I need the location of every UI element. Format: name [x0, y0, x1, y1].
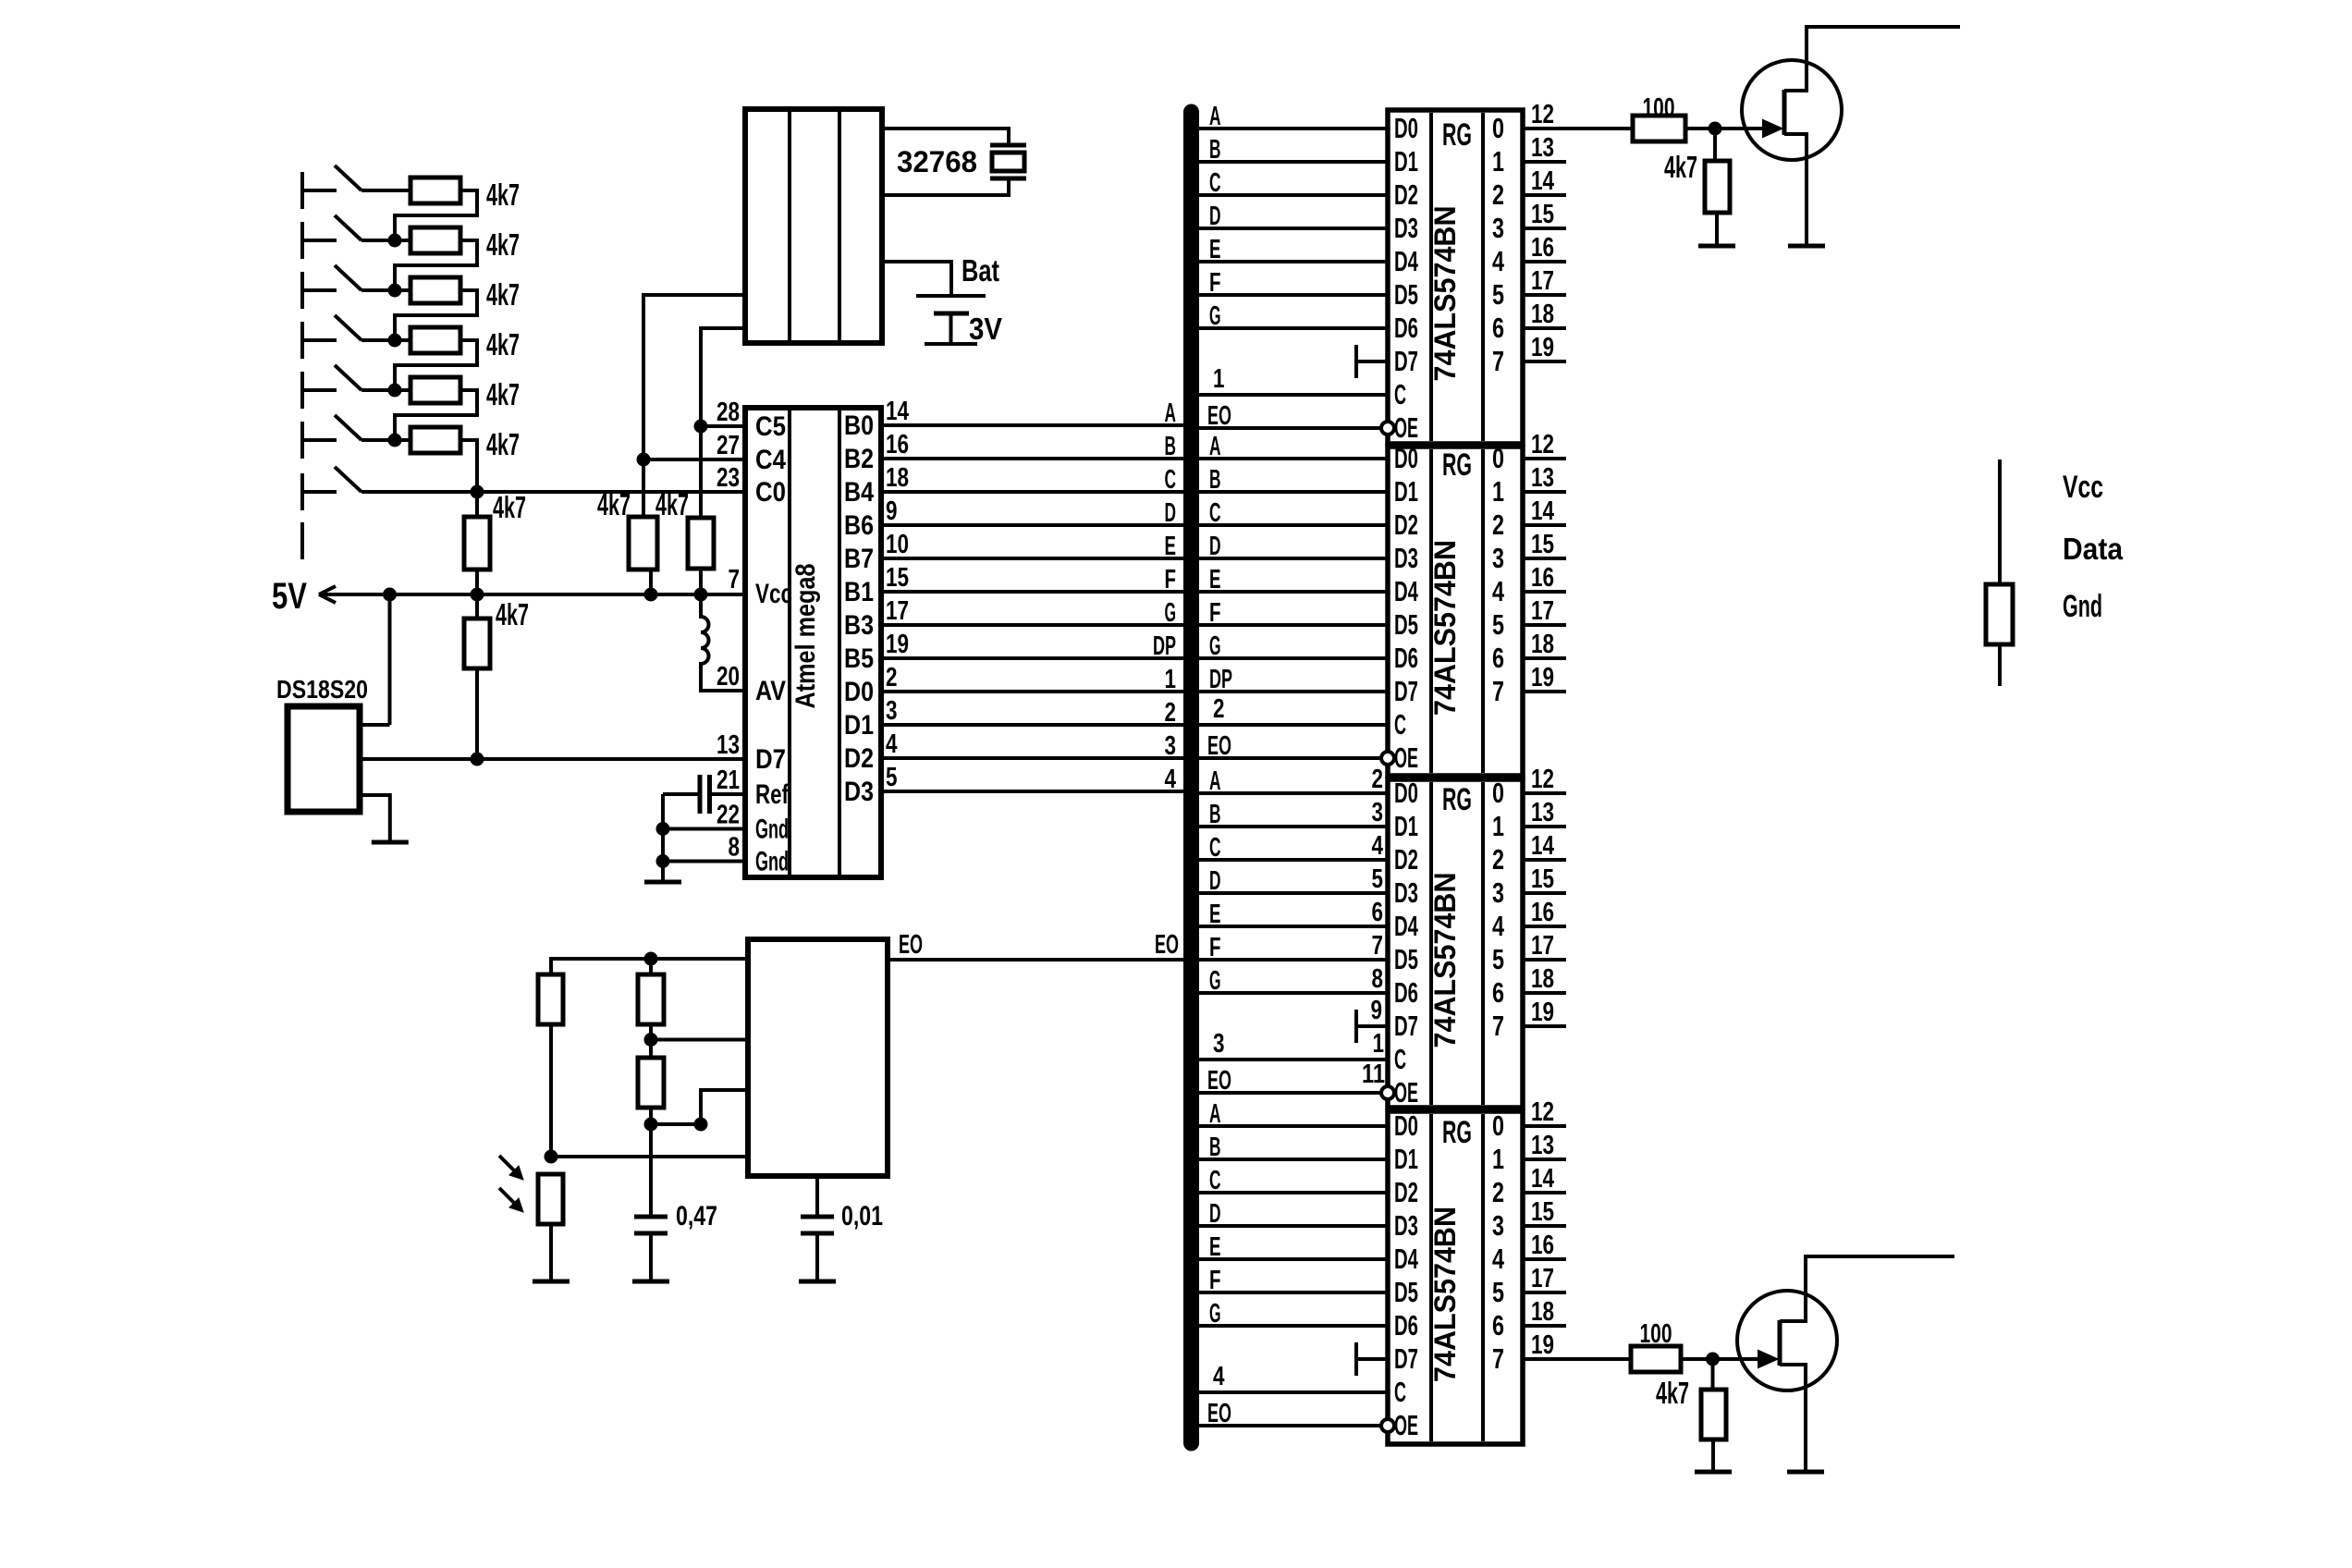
svg-text:2: 2: [886, 663, 898, 692]
wire bus net E to DD3 D4: [1197, 925, 1388, 928]
svg-text:D: D: [1209, 866, 1221, 896]
switch S1 lever: [335, 165, 361, 190]
svg-text:2: 2: [1492, 178, 1504, 211]
svg-text:7: 7: [1372, 931, 1384, 961]
wire DS18S20 data pin to mega8 D7 pin 13: [360, 757, 745, 761]
svg-text:G: G: [1165, 598, 1177, 628]
ground DS18S20: [372, 840, 409, 845]
switch S3 lever: [335, 265, 361, 290]
DD3 internal divider left: [1429, 782, 1433, 1105]
svg-text:D5: D5: [1394, 278, 1418, 311]
svg-text:5: 5: [1492, 1276, 1504, 1308]
IC DD1 74ALS574BN body: [1388, 110, 1523, 444]
svg-text:4: 4: [1213, 1362, 1225, 1391]
svg-text:18: 18: [886, 463, 909, 493]
wire U1 D0 pin 2 to bus net 1: [881, 690, 1185, 693]
switch S5 lever: [335, 365, 361, 390]
svg-text:B: B: [1209, 800, 1221, 829]
wire switch S4 to resistor R4: [361, 338, 410, 342]
svg-text:4: 4: [886, 729, 898, 759]
wire R15 to gate node: [1685, 127, 1766, 130]
wire U1 B3 pin 17 to bus net G: [881, 623, 1185, 627]
wire R13 lower lead to cap node: [649, 1108, 653, 1217]
wire C2 to ground: [649, 1233, 653, 1281]
svg-text:EO: EO: [1207, 731, 1231, 761]
node C4 line / pull-up A: [637, 453, 651, 467]
svg-text:C5: C5: [755, 411, 786, 442]
switch S4 contact stub: [302, 338, 337, 342]
svg-text:4k7: 4k7: [486, 427, 520, 461]
wire chain R5 to R6: [395, 390, 477, 440]
terminal bar continuation segment: [300, 522, 304, 559]
switch S4 terminal bar: [300, 322, 304, 359]
wire DD3 output 4 pin 16: [1523, 925, 1566, 928]
svg-text:3: 3: [1165, 731, 1177, 761]
svg-text:17: 17: [1531, 931, 1554, 961]
svg-text:4k7: 4k7: [486, 277, 520, 312]
svg-text:D1: D1: [1394, 475, 1418, 508]
svg-text:3V: 3V: [969, 312, 1002, 346]
wire gate node to R16: [1713, 129, 1717, 161]
wire U1 D3 pin 5 to bus net 4: [881, 790, 1185, 793]
node gnd column / pin 8: [656, 854, 670, 868]
DD4 D7 tie-off stub: [1354, 1342, 1358, 1376]
wire Gnd pin 22: [663, 827, 745, 831]
svg-text:14: 14: [1531, 166, 1554, 196]
transistor VT2 gate electrode: [1778, 1320, 1782, 1366]
wire block EO output to bus: [888, 958, 1185, 962]
transistor VT1 source lead: [1784, 134, 1807, 244]
svg-text:G: G: [1209, 1299, 1221, 1329]
svg-text:D0: D0: [1394, 1109, 1418, 1142]
svg-text:18: 18: [1531, 630, 1554, 659]
wire LDR node to block pin: [551, 1155, 748, 1158]
node switch S3 / chain junction: [388, 284, 402, 298]
svg-text:6: 6: [1492, 312, 1504, 344]
svg-text:7: 7: [1492, 1010, 1504, 1042]
svg-text:D4: D4: [1394, 910, 1418, 942]
resistor R11 (LDR divider upper): [538, 974, 563, 1024]
transistor VT1 body: [1742, 60, 1842, 160]
switch S1 terminal bar: [300, 172, 304, 209]
svg-text:3: 3: [886, 696, 898, 726]
svg-text:8: 8: [729, 833, 741, 863]
svg-text:D0: D0: [1394, 112, 1418, 144]
photoresistor arrows: [499, 1156, 518, 1207]
svg-text:E: E: [1209, 235, 1221, 264]
wire bus net D to DD2 D3: [1197, 557, 1388, 560]
DD2 OE active-low bubble: [1381, 752, 1394, 765]
svg-text:D6: D6: [1394, 642, 1418, 674]
svg-text:7: 7: [1492, 1342, 1504, 1375]
battery BT1 positive plate: [916, 294, 986, 298]
svg-text:E: E: [1209, 565, 1221, 594]
wire switch S5 to resistor R5: [361, 388, 410, 392]
wire DD2 output 1 pin 13: [1523, 490, 1566, 494]
arrow 5V feed: [319, 586, 336, 603]
switch S7 contact stub: [302, 490, 337, 494]
svg-text:D7: D7: [1394, 1010, 1418, 1042]
wire pull-up A lower lead: [649, 570, 653, 594]
wire DD1 output 6 pin 18: [1523, 326, 1566, 330]
wire DD4 output 6 pin 18: [1523, 1324, 1566, 1328]
svg-text:15: 15: [1531, 530, 1554, 559]
svg-text:14: 14: [1531, 1164, 1554, 1194]
switch S3 terminal bar: [300, 272, 304, 309]
svg-text:EO: EO: [1207, 401, 1231, 431]
svg-text:D2: D2: [844, 743, 874, 774]
svg-text:1: 1: [1213, 364, 1225, 394]
svg-text:D0: D0: [1394, 442, 1418, 474]
svg-text:27: 27: [717, 431, 740, 460]
svg-text:D0: D0: [1394, 777, 1418, 809]
svg-text:E: E: [1209, 1232, 1221, 1262]
wire bus net G to DD4 D6: [1197, 1324, 1388, 1328]
resistor R6 4k7: [410, 427, 460, 453]
svg-text:1: 1: [1373, 1029, 1385, 1059]
svg-text:13: 13: [717, 730, 740, 760]
wire DD4 output 7 to gate resistor: [1566, 1357, 1631, 1361]
svg-text:15: 15: [1531, 1197, 1554, 1227]
DD3 D7 tie-off stub: [1354, 1010, 1358, 1043]
svg-text:4k7: 4k7: [597, 487, 631, 521]
transistor VT1 gate electrode: [1782, 90, 1787, 135]
crystal X1 bottom plate: [990, 177, 1026, 181]
resistor R13 (divider): [638, 1058, 664, 1108]
wire bus net D to DD3 D3: [1197, 891, 1388, 895]
svg-text:3: 3: [1213, 1029, 1225, 1059]
svg-text:4k7: 4k7: [486, 227, 520, 262]
svg-text:4k7: 4k7: [486, 327, 520, 361]
ground R16: [1698, 244, 1735, 249]
svg-text:20: 20: [717, 662, 740, 692]
svg-text:F: F: [1209, 268, 1221, 298]
svg-text:4: 4: [1492, 910, 1505, 942]
wire U1 D1 pin 3 to bus net 2: [881, 723, 1185, 727]
wire DD3 output 0 pin 12: [1523, 791, 1566, 795]
svg-text:RG: RG: [1442, 782, 1472, 817]
wire 5V rail to DS18S20 data pull-up: [475, 594, 479, 619]
wire switch S1 to resistor R1: [361, 189, 410, 192]
svg-text:2: 2: [1492, 1176, 1504, 1208]
switch S6 terminal bar: [300, 422, 304, 459]
svg-text:B4: B4: [844, 477, 874, 508]
switch S3 contact stub: [302, 288, 337, 292]
svg-text:4k7: 4k7: [1656, 1376, 1689, 1410]
wire chain R4 to R5: [395, 340, 477, 390]
svg-text:74ALS574BN: 74ALS574BN: [1428, 206, 1462, 382]
svg-text:D7: D7: [1394, 345, 1418, 377]
ground battery: [925, 342, 977, 346]
wire DS18S20 Vdd pin: [360, 723, 390, 727]
wire C3 to ground: [815, 1233, 819, 1281]
node gate VT1: [1709, 122, 1722, 136]
svg-text:16: 16: [886, 430, 909, 459]
wire RTC to crystal top: [882, 129, 1009, 145]
ground VT2 source: [1787, 1470, 1824, 1475]
IC DD3 74ALS574BN body: [1388, 779, 1523, 1108]
resistor R1 4k7: [410, 178, 460, 203]
svg-text:4: 4: [1492, 575, 1505, 607]
node R12/R13 to block pin: [644, 1033, 658, 1047]
svg-text:D3: D3: [844, 777, 874, 807]
wire block top pin to divider resistors: [551, 959, 748, 974]
svg-text:Gnd: Gnd: [755, 847, 789, 877]
svg-text:32768: 32768: [897, 145, 977, 178]
wire pull-up B upper lead: [699, 426, 703, 518]
battery BT1 stem: [949, 313, 953, 342]
svg-text:D5: D5: [1394, 608, 1418, 641]
svg-text:Vcc: Vcc: [755, 579, 792, 609]
switch S5 contact stub: [302, 388, 337, 392]
wire chain R3 to R4: [395, 290, 477, 340]
svg-text:D1: D1: [1394, 145, 1418, 178]
IC DS18S20 temperature sensor body: [288, 706, 360, 812]
svg-text:12: 12: [1531, 1097, 1554, 1127]
svg-text:0: 0: [1492, 1109, 1504, 1142]
svg-text:OE: OE: [1394, 1076, 1418, 1109]
svg-text:4: 4: [1492, 245, 1505, 277]
svg-text:C: C: [1209, 168, 1221, 198]
svg-text:D: D: [1165, 498, 1177, 528]
switch S6 contact stub: [302, 438, 337, 442]
svg-text:0: 0: [1492, 442, 1504, 474]
node switch S5 / chain junction: [388, 384, 402, 398]
svg-text:C: C: [1209, 1166, 1221, 1195]
wire DD1 output 1 pin 13: [1523, 160, 1566, 164]
wire DD4 output 2 pin 14: [1523, 1191, 1566, 1194]
svg-text:A: A: [1209, 766, 1221, 796]
IC DD2 74ALS574BN body: [1388, 447, 1523, 776]
svg-text:74ALS574BN: 74ALS574BN: [1428, 1207, 1462, 1382]
svg-text:A: A: [1209, 102, 1221, 131]
svg-text:C4: C4: [755, 445, 786, 475]
svg-text:B1: B1: [844, 577, 874, 607]
svg-text:Ref: Ref: [755, 779, 790, 810]
svg-text:3: 3: [1492, 542, 1504, 574]
wire bus net A to DD3 D0: [1197, 791, 1388, 795]
wire bus net B to DD2 D1: [1197, 490, 1388, 494]
switch S7 terminal bar: [300, 473, 304, 510]
svg-text:D5: D5: [1394, 1276, 1418, 1308]
svg-text:23: 23: [717, 463, 740, 493]
svg-text:DS18S20: DS18S20: [276, 675, 368, 704]
svg-text:A: A: [1209, 432, 1221, 461]
resistor R3 4k7: [410, 277, 460, 303]
node LDR divider mid: [545, 1150, 558, 1164]
svg-text:G: G: [1209, 966, 1221, 996]
DD4 OE active-low bubble: [1381, 1419, 1394, 1432]
svg-text:4k7: 4k7: [496, 597, 529, 631]
IC RTC block body: [745, 109, 882, 343]
wire key node to pull-up resistor: [475, 492, 479, 517]
svg-text:19: 19: [886, 630, 909, 659]
svg-text:D3: D3: [1394, 212, 1418, 244]
svg-text:D2: D2: [1394, 508, 1418, 541]
svg-text:D1: D1: [1394, 1143, 1418, 1175]
svg-text:E: E: [1209, 900, 1221, 929]
svg-text:OE: OE: [1394, 1409, 1418, 1441]
U1 internal divider left: [788, 410, 791, 875]
svg-text:Gnd: Gnd: [2063, 589, 2102, 624]
switch S1 contact stub: [302, 189, 337, 192]
svg-text:D0: D0: [844, 677, 874, 707]
svg-text:14: 14: [886, 397, 909, 426]
node gnd column / pin 22: [656, 822, 670, 836]
svg-text:0: 0: [1492, 112, 1504, 144]
wire DD1 output 7 pin 19: [1523, 360, 1566, 363]
wire bus net G to DD3 D6: [1197, 991, 1388, 995]
svg-text:19: 19: [1531, 998, 1554, 1027]
wire chain R2 to R3: [395, 240, 477, 290]
DD2 internal divider left: [1429, 449, 1433, 773]
node switch S6 / chain junction: [388, 434, 402, 447]
wire R13 upper lead: [649, 1040, 653, 1059]
wire R11 to lower node: [549, 1024, 553, 1157]
wire DD3 output 2 pin 14: [1523, 858, 1566, 862]
svg-text:12: 12: [1531, 430, 1554, 459]
svg-text:D4: D4: [1394, 245, 1418, 277]
svg-text:14: 14: [1531, 831, 1554, 861]
wire DD4 output 4 pin 16: [1523, 1257, 1566, 1261]
svg-text:4: 4: [1165, 765, 1177, 794]
wire DD2 output 5 pin 17: [1523, 623, 1566, 627]
crystal X1 top plate: [990, 143, 1026, 148]
resistor R2 4k7: [410, 227, 460, 253]
svg-text:13: 13: [1531, 463, 1554, 493]
resistor R9 4k7 (RTC line A): [629, 517, 657, 570]
ground VT1 source: [1788, 244, 1825, 249]
wire DD1 output 2 pin 14: [1523, 193, 1566, 197]
DD3 internal divider right: [1481, 782, 1485, 1105]
wire switch S3 to resistor R3: [361, 288, 410, 292]
wire bus net 2 to DD2 C clock: [1197, 723, 1388, 727]
svg-text:3: 3: [1492, 876, 1504, 909]
svg-text:13: 13: [1531, 133, 1554, 163]
wire DD1 output 5 pin 17: [1523, 293, 1566, 297]
svg-text:C: C: [1165, 465, 1177, 495]
svg-text:13: 13: [1531, 798, 1554, 827]
svg-text:DP: DP: [1209, 665, 1232, 694]
DD1 internal divider right: [1481, 113, 1485, 441]
svg-text:2: 2: [1213, 694, 1225, 724]
svg-text:A: A: [1165, 398, 1177, 428]
resistor R8 4k7 pull-up (1-wire data): [464, 619, 490, 668]
ground C2: [632, 1280, 669, 1284]
svg-text:13: 13: [1531, 1131, 1554, 1160]
resistor R10 4k7 (RTC line B): [688, 518, 714, 569]
svg-text:B: B: [1165, 432, 1177, 461]
svg-text:B7: B7: [844, 544, 874, 574]
node switch S2 / chain junction: [388, 234, 402, 248]
svg-text:6: 6: [1372, 898, 1384, 927]
svg-text:17: 17: [1531, 596, 1554, 626]
svg-text:B2: B2: [844, 444, 874, 474]
wire U1 B4 pin 18 to bus net C: [881, 490, 1185, 494]
svg-text:D7: D7: [755, 744, 786, 775]
svg-text:4k7: 4k7: [486, 377, 520, 411]
wire R18 to ground: [1711, 1439, 1715, 1470]
svg-text:15: 15: [1531, 200, 1554, 229]
wire DD4 output 7 pin 19: [1523, 1357, 1566, 1361]
wire DD1 output 0 to gate resistor: [1566, 127, 1633, 130]
svg-text:F: F: [1209, 933, 1221, 962]
wire DD4 output 3 pin 15: [1523, 1224, 1566, 1228]
svg-text:B3: B3: [844, 610, 874, 641]
svg-text:B6: B6: [844, 510, 874, 541]
wire U1 B5 pin 19 to bus net DP: [881, 656, 1185, 660]
svg-text:EO: EO: [899, 930, 923, 960]
svg-text:EO: EO: [1155, 930, 1179, 960]
svg-text:74ALS574BN: 74ALS574BN: [1428, 873, 1462, 1048]
svg-text:0,47: 0,47: [676, 1201, 717, 1231]
svg-text:0: 0: [1492, 777, 1504, 809]
wire bus net B to DD1 D1: [1197, 160, 1388, 164]
svg-text:C: C: [1209, 498, 1221, 528]
wire bus net A to DD1 D0: [1197, 127, 1388, 130]
legend probe wire upper: [1998, 459, 2002, 584]
wire DD2 output 4 pin 16: [1523, 590, 1566, 594]
svg-text:Vcc: Vcc: [2063, 470, 2103, 505]
wire bus net F to DD4 D5: [1197, 1291, 1388, 1294]
switch S6 lever: [335, 415, 361, 440]
svg-text:B: B: [1209, 1133, 1221, 1162]
svg-text:A: A: [1209, 1099, 1221, 1129]
node feedback corner: [694, 1118, 708, 1132]
resistor R12 (divider): [638, 974, 664, 1024]
svg-text:G: G: [1209, 301, 1221, 331]
wire Gnd pin 8: [663, 860, 745, 864]
wire DD1 output 3 pin 15: [1523, 227, 1566, 230]
svg-text:B5: B5: [844, 643, 874, 674]
node R13 / C2 / feedback: [644, 1118, 658, 1132]
svg-text:2: 2: [1492, 843, 1504, 876]
wire feedback step to block pin 3: [651, 1090, 748, 1124]
svg-text:F: F: [1165, 565, 1177, 594]
legend probe resistor: [1986, 584, 2013, 644]
wire chain R6 down to key row node: [460, 440, 477, 492]
svg-text:5: 5: [1372, 864, 1384, 894]
svg-text:12: 12: [1531, 765, 1554, 794]
wire bus net 4 to DD4 C clock: [1197, 1390, 1388, 1394]
wire DD2 output 2 pin 14: [1523, 523, 1566, 527]
wire chain R1 to R2: [395, 190, 477, 240]
svg-text:2: 2: [1165, 698, 1177, 728]
svg-text:22: 22: [717, 801, 740, 830]
svg-text:D1: D1: [1394, 810, 1418, 842]
svg-text:D6: D6: [1394, 312, 1418, 344]
svg-text:Data: Data: [2063, 532, 2124, 566]
wire R8 to data line: [475, 668, 479, 759]
svg-text:D: D: [1209, 202, 1221, 231]
wire DD2 output 3 pin 15: [1523, 557, 1566, 560]
svg-text:18: 18: [1531, 300, 1554, 329]
wire bus net D to DD4 D3: [1197, 1224, 1388, 1228]
svg-text:RG: RG: [1442, 1115, 1472, 1150]
node 5V / RTC pull-up A: [644, 588, 658, 602]
svg-text:1: 1: [1492, 1143, 1504, 1175]
ground mega8: [644, 880, 681, 885]
RTC internal divider left: [788, 112, 791, 340]
wire DD1 output 4 pin 16: [1523, 260, 1566, 263]
svg-text:D: D: [1209, 532, 1221, 561]
wire U1 B7 pin 10 to bus net E: [881, 557, 1185, 560]
svg-text:10: 10: [886, 530, 909, 559]
wire block bottom pin to C3: [815, 1176, 819, 1217]
svg-text:5V: 5V: [272, 576, 307, 617]
capacitor C1 on Ref pin 21: [711, 792, 745, 796]
svg-text:15: 15: [886, 563, 909, 593]
